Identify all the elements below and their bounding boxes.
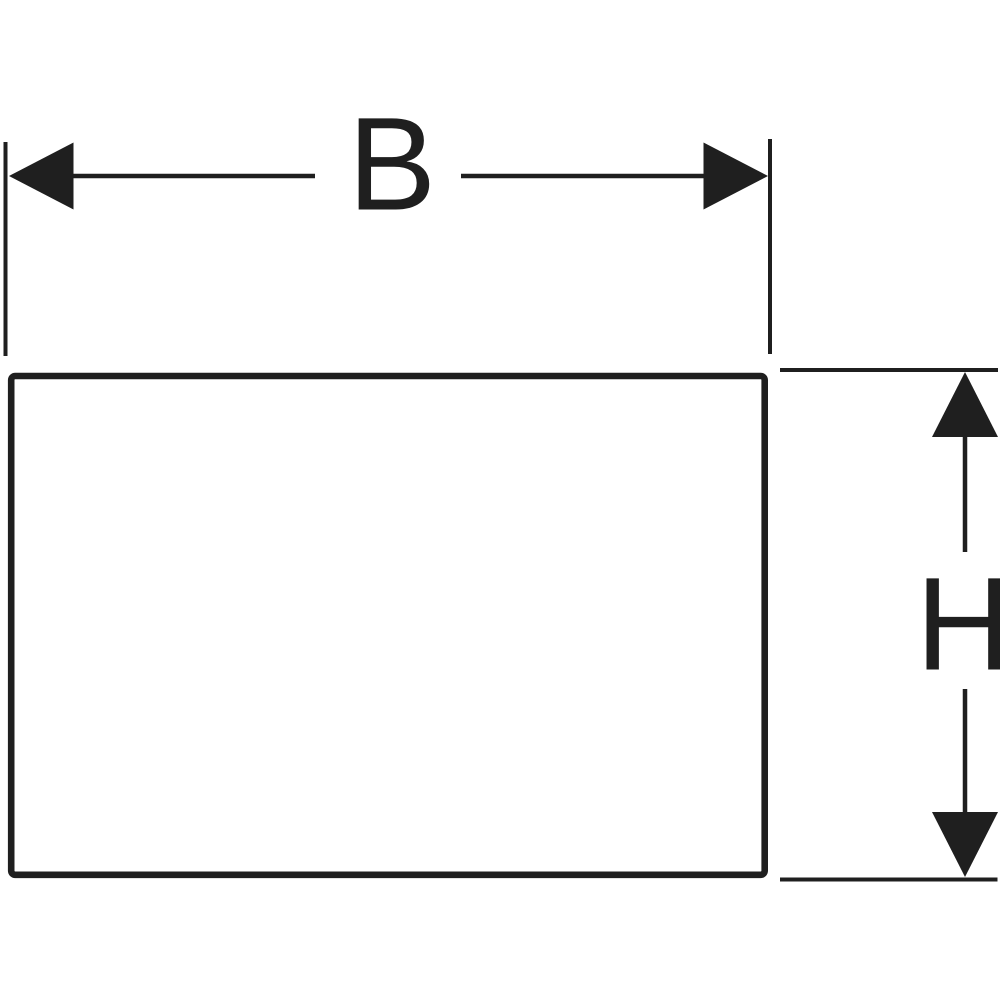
dimension line H bottom segment xyxy=(963,689,968,813)
svg-text:B: B xyxy=(348,91,436,239)
arrowhead B left xyxy=(9,143,74,210)
dimension line B right segment xyxy=(461,174,706,179)
extension line right (dimension B) xyxy=(768,139,772,354)
dimension line H top segment xyxy=(963,434,968,552)
extension line left (dimension B) xyxy=(4,142,8,356)
extension line top (dimension H) xyxy=(780,368,998,372)
arrowhead H top xyxy=(932,372,998,437)
rectangle outline xyxy=(11,376,765,875)
svg-text:H: H xyxy=(916,551,1000,699)
arrowhead B right xyxy=(704,143,769,210)
arrowhead H bottom xyxy=(932,812,998,877)
extension line bottom (dimension H) xyxy=(780,878,998,882)
dimension line B left segment xyxy=(70,174,315,179)
